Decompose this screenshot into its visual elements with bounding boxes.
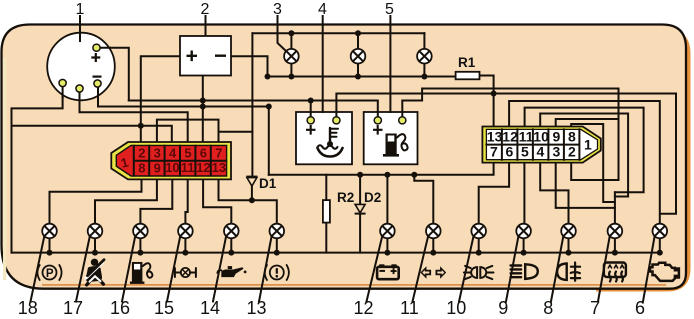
svg-text:8: 8 bbox=[543, 298, 553, 318]
svg-text:R2: R2 bbox=[337, 190, 354, 205]
callout 6 line and label bbox=[643, 236, 655, 301]
wire: red pin 7 tap to D1 column bbox=[219, 131, 253, 133]
wire: white pin 6 to lamp 10 bbox=[479, 163, 509, 224]
node: middle bus at lamp 11 tap bbox=[411, 172, 417, 178]
wire: middle bus R2 D2 lamp12 to white pin 7 bbox=[269, 163, 494, 175]
wire: fuel right terminal to right nest bbox=[402, 89, 618, 181]
wire: D1 junction to lamp 13 bbox=[252, 200, 277, 224]
wire: lamp 8 bottom stub bbox=[568, 238, 570, 252]
icon: fuel level (inside unit 5) bbox=[383, 134, 408, 157]
wire: white pin 8 nest line bbox=[571, 124, 615, 202]
svg-text:2: 2 bbox=[568, 144, 576, 160]
wire: red pin 8 to lamp 18 bbox=[50, 179, 142, 224]
callout 15 line and label bbox=[167, 236, 180, 301]
callout 7 line and label bbox=[598, 236, 610, 301]
svg-text:10: 10 bbox=[165, 160, 179, 175]
wire: white pin 12 to lamp 6 bbox=[509, 101, 660, 224]
red connector X2 (13 pin) bbox=[111, 142, 231, 179]
svg-text:16: 16 bbox=[110, 298, 130, 318]
wire: D1 column from top bus bbox=[251, 33, 253, 176]
svg-text:R1: R1 bbox=[458, 55, 476, 70]
svg-text:5: 5 bbox=[184, 146, 191, 161]
wire: R1 right to white pin 13 bbox=[480, 76, 494, 127]
svg-text:P: P bbox=[46, 268, 54, 280]
callout 12 line and label bbox=[367, 236, 383, 301]
icon: parking brake (P) for lamp 18 bbox=[37, 265, 61, 280]
wire: lamp 9 bottom stub bbox=[523, 238, 525, 252]
node: R1 branch junction bbox=[491, 91, 497, 97]
wire: lamp 15 bottom stub bbox=[184, 238, 186, 252]
wire: red pin 9 to lamp 17 bbox=[95, 179, 157, 224]
fuel gauge unit (item 5) bbox=[364, 112, 418, 164]
svg-text:12: 12 bbox=[353, 298, 373, 318]
wire: middle bus tap to lamp 11 bbox=[414, 175, 433, 224]
lamp 3 bbox=[284, 49, 299, 64]
svg-text:D1: D1 bbox=[259, 176, 277, 191]
node: top bus at lamp 3 bbox=[288, 30, 294, 36]
lamp 5 bbox=[417, 49, 432, 64]
wire: white pin 9 nest line bbox=[556, 119, 619, 127]
node: top bus at lamp 4 bbox=[355, 30, 361, 36]
callout 16 line and label bbox=[122, 236, 135, 301]
wire: white pin 5 to lamp 9 bbox=[523, 163, 525, 224]
wire: red pin 6 from bus B bbox=[202, 107, 204, 143]
icon: brake system (!) for lamp 13 bbox=[265, 265, 289, 280]
node: lamp bus at lamp 3 bbox=[288, 74, 294, 80]
svg-text:1: 1 bbox=[584, 137, 592, 153]
svg-text:3: 3 bbox=[154, 146, 161, 161]
wire: white pin 10 nest line bbox=[540, 114, 628, 197]
node: ground dots under lamps bbox=[47, 250, 663, 256]
wire: lamp 7 riser bbox=[614, 192, 616, 223]
wire: D2 column bbox=[359, 175, 361, 253]
wire: lamp bottom bus to R1 bbox=[268, 76, 456, 78]
node: bus B at battery bbox=[200, 104, 206, 110]
wire: red pin 12 to lamp 14 bbox=[203, 179, 231, 224]
svg-text:11: 11 bbox=[400, 298, 419, 318]
battery GB1 (item 2) bbox=[180, 36, 231, 76]
wire: battery left to red pin 2 bbox=[141, 56, 180, 142]
bottom warning lamps 18..13 and 12..6 bbox=[42, 224, 667, 239]
svg-text:17: 17 bbox=[63, 298, 83, 318]
wire: lamp 16 bottom stub bbox=[139, 238, 141, 252]
svg-text:10: 10 bbox=[533, 129, 549, 145]
svg-text:9: 9 bbox=[498, 298, 508, 318]
wire: lamp 4 riser bottom bbox=[357, 64, 359, 77]
svg-text:13: 13 bbox=[246, 298, 266, 318]
wire: red pin 10 to lamp 16 bbox=[140, 179, 172, 224]
node: D1 junction bbox=[249, 197, 255, 203]
wire: D1 to junction bbox=[251, 186, 253, 200]
callout 17 line and label bbox=[76, 236, 90, 301]
svg-text:15: 15 bbox=[154, 298, 174, 318]
svg-text:8: 8 bbox=[568, 129, 576, 145]
svg-text:12: 12 bbox=[502, 129, 518, 145]
wire: lamp 11 bottom stub bbox=[432, 238, 434, 252]
wire: alternator ground terminal to ground riser bbox=[12, 86, 63, 253]
wire: lamp 10 bottom stub bbox=[478, 238, 480, 252]
wire: bus B drop to middle bus bbox=[268, 107, 270, 175]
wire: lamp 13 bottom stub bbox=[276, 238, 278, 252]
wire: white pin 3 to lamp 7 bbox=[556, 163, 615, 208]
icon: seat belt for lamp 17 bbox=[86, 259, 104, 285]
svg-text:5: 5 bbox=[521, 144, 529, 160]
svg-text:D2: D2 bbox=[364, 190, 381, 205]
wire: alternator minus to bus B bbox=[98, 86, 269, 107]
icon: fuel for lamp 16 bbox=[130, 262, 153, 284]
wire: temp gauge left terminal riser bbox=[310, 101, 312, 121]
icon: choke for lamp 15 bbox=[175, 268, 196, 277]
icon: low beam for lamp 9 bbox=[511, 264, 538, 279]
svg-text:10: 10 bbox=[446, 298, 466, 318]
svg-text:1: 1 bbox=[76, 1, 85, 18]
node: bus A at battery bbox=[200, 98, 206, 104]
white connector X1 (13 pin) bbox=[482, 127, 600, 163]
callout 18 line and label bbox=[31, 236, 45, 301]
wire: bus A horizontal bbox=[129, 101, 378, 121]
wire: lamp 5 riser top bbox=[423, 33, 425, 49]
wire: red pin 13 to D1 junction bbox=[219, 179, 252, 200]
svg-text:13: 13 bbox=[212, 160, 226, 175]
svg-text:7: 7 bbox=[490, 144, 498, 160]
wire: lamp 12 drop from middle bus bbox=[386, 175, 388, 224]
wire: battery center riser bbox=[202, 76, 204, 107]
svg-text:4: 4 bbox=[169, 146, 177, 161]
node: bus A at temp gauge bbox=[308, 98, 314, 104]
node: D2 top junction bbox=[357, 172, 363, 178]
callout 8 line and label bbox=[551, 236, 563, 301]
icon: turn signals for lamp 11 bbox=[420, 266, 446, 279]
node: middle bus at lamp 12 bbox=[384, 172, 390, 178]
wire: R2 bottom to ground bus bbox=[325, 223, 327, 253]
lamp 4 bbox=[351, 49, 366, 64]
wire: lamp 7 bottom stub bbox=[614, 238, 616, 252]
wire: battery right to lamp bus junction bbox=[231, 56, 268, 76]
svg-text:2: 2 bbox=[138, 146, 145, 161]
svg-text:6: 6 bbox=[200, 146, 207, 161]
svg-text:4: 4 bbox=[537, 144, 545, 160]
wire: red pin 3 to pin 7 link bbox=[157, 120, 219, 143]
icon: check engine for lamp 6 bbox=[650, 263, 679, 281]
wire: R2 riser bbox=[325, 175, 327, 200]
diode D2 bbox=[355, 190, 382, 215]
resistor R2 bbox=[323, 190, 354, 223]
wire: lamp 18 bottom stub bbox=[49, 238, 51, 252]
svg-text:11: 11 bbox=[181, 160, 195, 175]
callout 13 line and label bbox=[259, 236, 272, 301]
svg-text:6: 6 bbox=[635, 298, 645, 318]
svg-text:12: 12 bbox=[196, 160, 210, 175]
svg-text:14: 14 bbox=[200, 298, 220, 318]
node: lamp bus at lamp 4 bbox=[355, 74, 361, 80]
svg-text:7: 7 bbox=[215, 146, 222, 161]
icon: coolant temperature (inside unit 4) bbox=[318, 128, 343, 157]
svg-text:2: 2 bbox=[201, 1, 210, 18]
node: lamp bus left junction bbox=[265, 74, 271, 80]
wire: lamp 5 riser bottom bbox=[423, 64, 425, 77]
wire: temp right terminal to nest line 93 bbox=[336, 94, 676, 214]
alternator G1 (item 1) bbox=[47, 16, 115, 101]
icon: battery charge for lamp 12 bbox=[377, 264, 399, 279]
temp gauge unit (item 4) bbox=[296, 112, 352, 164]
svg-text:11: 11 bbox=[519, 129, 534, 145]
resistor R1 bbox=[456, 55, 480, 79]
svg-text:9: 9 bbox=[553, 129, 561, 145]
wire: red pin 11 to lamp 15 bbox=[185, 179, 187, 224]
svg-text:3: 3 bbox=[553, 144, 561, 160]
callout 14 line and label bbox=[213, 236, 226, 301]
callout 10 line and label bbox=[459, 236, 474, 301]
icon: rear fog light for lamp 8 bbox=[557, 263, 580, 281]
svg-text:8: 8 bbox=[138, 160, 145, 175]
node: bus B drop junction bbox=[266, 104, 272, 110]
callout 11 line and label bbox=[413, 236, 429, 301]
node: battery junction at pin 2 bbox=[138, 123, 144, 129]
wire: alternator plus to bus A bbox=[97, 48, 129, 101]
wire: white pin 11 to lamp 7 bbox=[525, 108, 644, 193]
wire: lamp 3 riser top bbox=[290, 33, 292, 49]
wire: lamp 17 bottom stub bbox=[94, 238, 96, 252]
wire: top lamp bus (lamps 3,4,5 feed) bbox=[253, 32, 425, 34]
svg-text:9: 9 bbox=[154, 160, 161, 175]
wire: lamp 6 bottom stub bbox=[659, 238, 661, 252]
wire: lamp 12 bottom stub bbox=[386, 238, 388, 252]
svg-text:18: 18 bbox=[18, 298, 38, 318]
wire: lamp 3 riser bottom bbox=[290, 64, 292, 77]
node: lamp bus at lamp 5 bbox=[421, 74, 427, 80]
wire: ground bus bottom bbox=[12, 252, 660, 254]
wire: battery top callout stub bbox=[205, 16, 207, 36]
wire: left line to battery junction bbox=[12, 125, 141, 127]
wire: red pin 4 from battery junction line bbox=[141, 126, 172, 143]
svg-text:13: 13 bbox=[487, 129, 503, 145]
wire: alternator body terminal to red pin 5 bbox=[80, 91, 188, 142]
diode D1 bbox=[246, 176, 276, 191]
wire: white pin 4 to lamp 8 bbox=[540, 163, 568, 224]
svg-text:6: 6 bbox=[506, 144, 514, 160]
wire: lamp 4 riser top bbox=[357, 33, 359, 49]
svg-text:7: 7 bbox=[590, 298, 600, 318]
icon: oil pressure for lamp 14 bbox=[217, 266, 246, 277]
icon: position lights for lamp 10 bbox=[464, 266, 494, 279]
callout 9 line and label bbox=[506, 236, 518, 301]
wire: lamp 14 bottom stub bbox=[230, 238, 232, 252]
icon: rear window defogger for lamp 7 bbox=[604, 263, 626, 282]
